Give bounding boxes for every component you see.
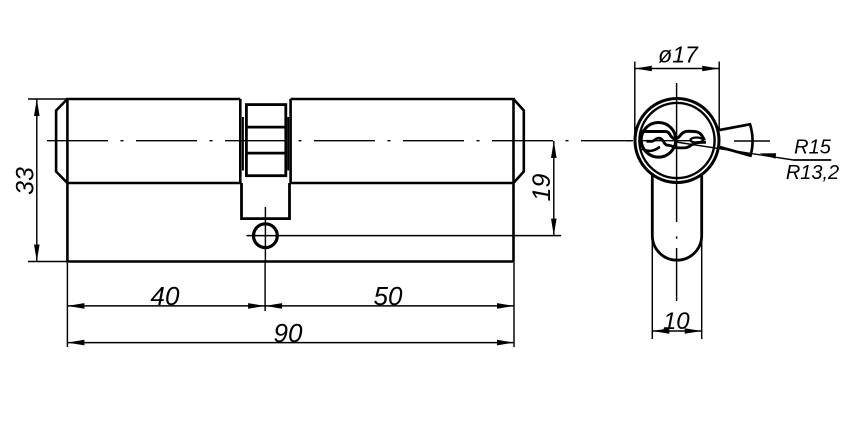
svg-text:R15: R15 xyxy=(794,137,832,159)
svg-text:40: 40 xyxy=(151,281,180,311)
svg-text:50: 50 xyxy=(374,281,403,311)
svg-text:ø17: ø17 xyxy=(658,42,699,68)
svg-text:33: 33 xyxy=(12,167,40,195)
svg-text:R13,2: R13,2 xyxy=(786,162,839,184)
svg-text:10: 10 xyxy=(663,308,690,335)
svg-text:19: 19 xyxy=(528,174,556,202)
svg-text:90: 90 xyxy=(274,318,303,348)
